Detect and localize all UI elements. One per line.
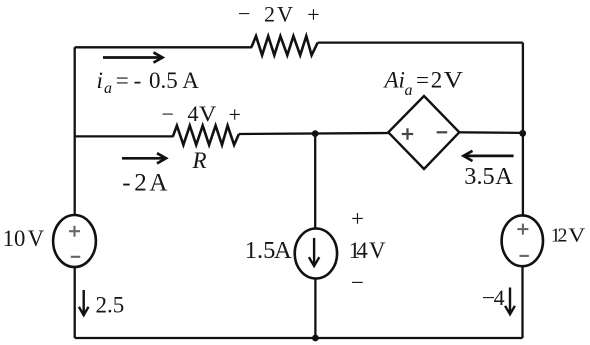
current arrow i_a on top-left wire [103,52,163,62]
wire middle horizontal segment (R to diamond) [239,133,389,134]
svg-text:−: − [238,1,250,26]
svg-text:V: V [369,238,386,263]
svg-text:Ai: Ai [383,68,405,93]
svg-text:2: 2 [134,170,147,197]
V2 minus sign [520,255,529,257]
wire top-left horizontal segment [75,46,252,48]
diamond plus terminal [402,128,413,139]
svg-text:V: V [568,226,585,247]
V1 minus sign [71,256,80,258]
label i_a = -0.5 A [97,68,200,97]
svg-text:A: A [495,163,513,190]
wire left vertical lower segment [74,266,76,338]
label top resistor voltage: - 2V + [238,1,320,27]
resistor R (4 V) [173,126,239,145]
svg-text:A: A [182,68,199,93]
V2 plus sign [517,224,528,235]
node junction dot (bottom) [312,335,319,342]
wire bottom horizontal segment [75,337,523,339]
diamond minus terminal [437,131,448,133]
label resistor R voltage: - 4V + [162,101,241,127]
current arrow -4 (down, bottom-right) [505,288,515,315]
label 10 V [3,226,45,251]
I1 internal arrow (down) [309,238,319,266]
label 3.5 A [464,163,513,190]
svg-text:=: = [416,68,429,93]
svg-text:A: A [149,170,167,197]
svg-text:−: − [351,270,364,295]
svg-text:a: a [405,82,413,99]
wire right vertical upper segment [522,43,524,216]
svg-text:3.5: 3.5 [464,163,494,190]
V1 plus sign [69,226,80,237]
svg-text:4: 4 [356,238,368,263]
svg-text:-: - [122,170,130,197]
wire right vertical lower segment [521,266,523,339]
resistor top (2 V) [251,36,317,55]
label 14V [349,238,386,263]
current source I1 1.5A (ellipse) [295,229,337,279]
svg-text:R: R [192,148,207,173]
dependent source diamond (Ai_a = 2V) [388,96,459,169]
svg-text:10: 10 [3,226,26,251]
svg-text:A: A [274,237,292,264]
label Ai_a = 2 V [383,68,464,99]
voltage source V2 12V (ellipse) [502,215,543,266]
svg-text:V: V [28,226,45,251]
svg-text:4: 4 [494,285,505,310]
wire middle-left horizontal segment [75,135,174,137]
svg-text:V: V [277,2,293,27]
svg-text:V: V [199,101,216,126]
svg-text:2.5: 2.5 [96,293,125,318]
wire left vertical upper segment [74,47,76,216]
node junction dot (right) [519,130,526,137]
svg-text:-: - [134,68,142,93]
svg-text:0.5: 0.5 [149,68,178,93]
wire diamond to right wire [459,131,523,134]
svg-text:V: V [444,68,464,93]
svg-text:2: 2 [264,2,275,27]
svg-text:−: − [162,102,174,127]
wire middle vertical lower segment (current source to bottom) [314,278,316,338]
svg-text:2: 2 [431,68,443,93]
wire top-right horizontal segment [318,41,523,43]
svg-text:1.5: 1.5 [245,237,276,264]
label 1.5 A [245,237,292,264]
svg-text:2: 2 [558,226,568,247]
current arrow 2.5 (down, bottom-left) [79,290,89,315]
label - 2 A [122,170,167,197]
svg-text:+: + [229,102,241,127]
voltage source V1 10V (ellipse) [53,215,96,267]
svg-text:a: a [104,80,112,97]
svg-text:+: + [351,206,364,231]
label -4 [482,285,505,310]
svg-text:=: = [116,68,129,93]
current arrow -2A [122,153,166,163]
wire middle vertical upper segment (node to current source) [314,134,316,229]
svg-text:4: 4 [188,101,199,126]
current arrow 3.5A (pointing left) [464,151,514,161]
svg-text:+: + [307,2,319,27]
label 12 V [551,226,586,247]
svg-text:i: i [97,68,103,93]
node junction dot (middle) [312,130,319,137]
